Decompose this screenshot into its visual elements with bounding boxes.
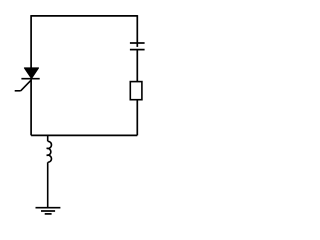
thyristor SCR gate diagonal — [21, 80, 31, 90]
thyristor SCR cathode bar — [21, 78, 39, 80]
wire left lower — [30, 79, 32, 136]
resistor box — [130, 82, 142, 100]
wire bottom — [31, 134, 137, 136]
capacitor bottom plate — [130, 49, 145, 51]
wire left upper — [30, 15, 32, 68]
ground bar 3 — [45, 213, 52, 215]
ground bar 2 — [41, 210, 55, 212]
capacitor top plate — [130, 42, 145, 44]
wire right lower — [136, 100, 138, 136]
wire right middle — [136, 50, 138, 82]
thyristor SCR anode triangle — [24, 68, 38, 79]
thyristor SCR gate lead — [15, 90, 21, 92]
wire inductor branch — [47, 135, 49, 141]
wire inductor to ground — [47, 162, 49, 207]
ground bar 1 — [36, 207, 61, 209]
inductor L coil — [47, 141, 52, 162]
wire right upper — [136, 15, 138, 47]
wire top — [31, 15, 137, 17]
